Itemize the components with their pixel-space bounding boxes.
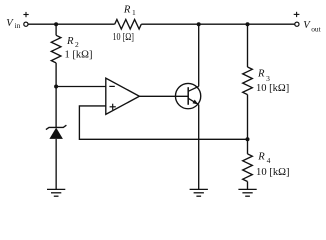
ground (left) (47, 189, 65, 196)
terminal Vout (295, 22, 299, 26)
junction node collector top (197, 22, 201, 26)
svg-text:10 [kΩ]: 10 [kΩ] (256, 83, 289, 94)
svg-text:in: in (15, 21, 21, 30)
wire op-amp noninverting input / feedback (79, 106, 247, 139)
junction node top-left (54, 22, 58, 26)
svg-text:4: 4 (267, 156, 271, 165)
junction node R3 top (246, 22, 250, 26)
op-amp minus label (109, 85, 115, 87)
ground (emitter) (190, 189, 208, 196)
wire top rail left: Vin terminal to R1 (28, 23, 115, 25)
plus sign Vout (294, 12, 300, 17)
svg-text:3: 3 (266, 74, 270, 83)
svg-text:V: V (6, 18, 14, 29)
svg-text:1 [kΩ]: 1 [kΩ] (65, 50, 93, 61)
resistor R3 (243, 24, 253, 139)
svg-text:R: R (257, 152, 265, 163)
op-amp plus label (110, 104, 116, 110)
svg-text:V: V (303, 20, 311, 31)
resistor R4 (243, 139, 253, 189)
svg-text:10 [Ω]: 10 [Ω] (113, 32, 135, 43)
resistor R1 (115, 20, 142, 30)
op-amp U1 (106, 78, 140, 114)
svg-text:2: 2 (75, 40, 79, 49)
wire top rail right: R1 to Vout terminal (141, 23, 294, 25)
transistor Q1 (175, 83, 200, 108)
svg-text:R: R (123, 4, 131, 15)
wire op-amp inverting input (56, 86, 106, 88)
plus sign Vin (23, 12, 28, 17)
junction node feedback (246, 137, 250, 141)
svg-text:1: 1 (132, 8, 136, 17)
resistor R2 (51, 24, 61, 86)
ground (R4) (238, 189, 256, 196)
svg-text:out: out (311, 25, 321, 34)
junction node inverting (54, 85, 58, 89)
terminal Vin (24, 22, 28, 26)
wire emitter down (198, 105, 200, 190)
wire op-amp output to base (139, 95, 188, 97)
wire collector up (198, 24, 200, 86)
svg-text:R: R (66, 36, 74, 47)
svg-text:10 [kΩ]: 10 [kΩ] (256, 167, 290, 178)
wire zener column (55, 87, 57, 128)
zener diode DZ (46, 125, 67, 189)
svg-text:R: R (257, 69, 265, 80)
